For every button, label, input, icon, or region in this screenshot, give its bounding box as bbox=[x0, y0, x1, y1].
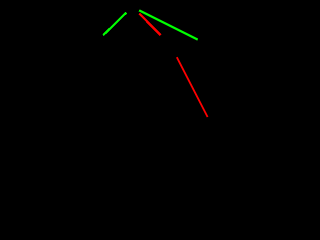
canvas background bbox=[0, 0, 265, 172]
red falling line upper segment bbox=[139, 14, 160, 35]
red falling line lower segment bbox=[177, 57, 208, 117]
green rising trend line (left) bbox=[103, 13, 126, 36]
green falling trend line (right) bbox=[139, 10, 198, 39]
